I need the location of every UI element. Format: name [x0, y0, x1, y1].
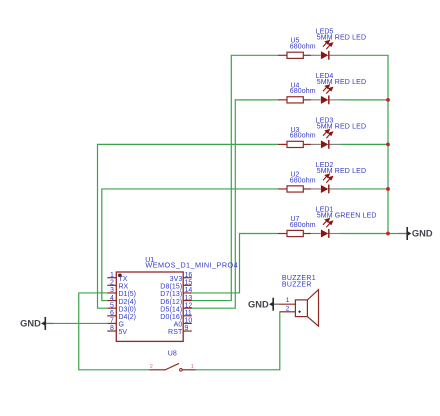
svg-text:3: 3: [110, 287, 114, 294]
resistor U4 680ohm: [278, 97, 311, 103]
U1 left pin 1 (TX) stub: [107, 277, 116, 279]
LED LED5 pin right (gray): [329, 54, 341, 56]
svg-text:5MM RED LED: 5MM RED LED: [317, 168, 367, 175]
svg-text:TX: TX: [119, 276, 128, 283]
svg-text:680ohm: 680ohm: [290, 44, 316, 51]
wire: LED4 left + drop to D5(14): [192, 100, 278, 308]
svg-text:WEMOS_D1_MINI_PRO4: WEMOS_D1_MINI_PRO4: [145, 261, 238, 270]
LED LED1 diode symbol: [321, 229, 329, 238]
LED LED2 emission arrows: [323, 174, 333, 183]
U1 right pin 10 (A0) stub: [183, 322, 192, 324]
wire: LED1 row right segment: [341, 233, 389, 235]
ground GND left gray lead: [46, 322, 53, 324]
U1 right pin 16 (3V3) stub: [183, 277, 192, 279]
U1 left pin 6 (D4(2)) stub: [107, 315, 116, 317]
svg-text:5V: 5V: [119, 329, 128, 336]
svg-text:5MM RED LED: 5MM RED LED: [317, 123, 367, 130]
LED LED1 pin left (gray): [311, 233, 321, 235]
svg-text:6: 6: [110, 310, 114, 317]
resistor U2 680ohm: [278, 186, 311, 192]
svg-text:5: 5: [110, 302, 114, 309]
LED LED3 emission arrows: [323, 130, 333, 139]
LED LED3 pin right (gray): [329, 143, 341, 145]
op-amp U1 WEMOS_D1_MINI_PRO4 body: [116, 272, 183, 341]
svg-text:2: 2: [286, 305, 290, 312]
U1 left pin 2 (RX) stub: [107, 284, 116, 286]
ground GND right wedge: [408, 231, 412, 235]
svg-text:12: 12: [185, 302, 193, 309]
ground GND buzzer wedge: [269, 302, 273, 306]
svg-text:D4(2): D4(2): [119, 314, 137, 321]
U1 left pin 7 (G) stub: [107, 322, 116, 324]
svg-text:A0: A0: [174, 322, 183, 329]
resistor U5 680ohm: [278, 52, 311, 58]
svg-text:D8(15): D8(15): [160, 284, 182, 291]
U1 left pin 5 (D3(0)) stub: [107, 307, 116, 309]
junction dot LED2 on bus: [386, 187, 390, 191]
LED LED3 pin left (gray): [311, 143, 321, 145]
svg-text:U8: U8: [168, 350, 177, 357]
ground GND right gray lead: [399, 233, 406, 235]
U1 left pin 8 (5V) stub: [107, 330, 116, 332]
svg-text:1: 1: [110, 272, 114, 279]
LED LED1 pin right (gray): [329, 233, 341, 235]
LED LED4 pin left (gray): [311, 99, 321, 101]
svg-text:GND: GND: [20, 319, 41, 329]
buzzer BUZZER1 body: [307, 290, 318, 327]
svg-text:10: 10: [185, 318, 193, 325]
svg-text:680ohm: 680ohm: [290, 88, 316, 95]
svg-text:2: 2: [110, 280, 114, 287]
svg-text:2: 2: [150, 364, 153, 370]
wire: LED5 row right segment: [341, 54, 389, 56]
svg-text:GND: GND: [248, 299, 269, 309]
svg-text:680ohm: 680ohm: [290, 133, 316, 140]
svg-text:11: 11: [185, 310, 192, 317]
svg-text:RX: RX: [119, 284, 129, 291]
U1 right pin 9 (RST) stub: [183, 330, 192, 332]
svg-text:15: 15: [185, 280, 193, 287]
svg-text:D0(16): D0(16): [160, 314, 182, 321]
U1 right pin 12 (D5(14)) stub: [183, 307, 192, 309]
ground GND left bar: [44, 317, 46, 330]
U1 right pin 14 (D7(13)) stub: [183, 292, 192, 294]
wire: D1(5) to switch bottom rail: [79, 293, 150, 370]
switch U8 blade: [165, 363, 179, 370]
ground GND buzzer bar: [272, 298, 274, 311]
svg-text:14: 14: [185, 287, 193, 294]
svg-text:D5(14): D5(14): [160, 306, 182, 313]
junction dot LED4 on bus: [386, 98, 390, 102]
LED LED1 emission arrows: [323, 219, 333, 228]
U1 right pin 13 (D6(12)) stub: [183, 300, 192, 302]
junction dot LED1/GND on bus: [386, 232, 390, 236]
LED LED2 diode symbol: [321, 185, 329, 194]
svg-text:1: 1: [191, 364, 194, 370]
wire: LED5 left + drop to D6(12): [192, 55, 278, 300]
LED LED2 pin right (gray): [329, 188, 341, 190]
LED LED2 pin left (gray): [311, 188, 321, 190]
wire: LED3 row right segment: [341, 143, 389, 145]
svg-text:D1(5): D1(5): [119, 291, 137, 298]
ground GND left wedge: [41, 321, 45, 325]
LED LED3 diode symbol: [321, 140, 329, 149]
LED LED4 diode symbol: [321, 95, 329, 104]
wire: G pin to left GND flag: [54, 322, 108, 324]
ground GND buzzer gray lead: [274, 303, 279, 305]
svg-text:RST: RST: [168, 329, 183, 336]
svg-text:5MM RED LED: 5MM RED LED: [317, 34, 367, 41]
U1 right pin 15 (D8(15)) stub: [183, 284, 192, 286]
U1 left pin 3 (D1(5)) stub: [107, 292, 116, 294]
U1 pin-1 marker dot: [118, 274, 122, 278]
svg-text:GND: GND: [412, 229, 433, 239]
svg-text:8: 8: [110, 325, 114, 332]
switch U8 pin 1 lead: [182, 369, 195, 371]
wire: LED3 left + drop to D3(0): [98, 144, 279, 308]
buzzer pin 1 stub: [279, 303, 296, 305]
svg-text:5MM RED LED: 5MM RED LED: [317, 79, 367, 86]
svg-text:G: G: [119, 322, 124, 329]
svg-text:D3(0): D3(0): [119, 306, 137, 313]
LED LED4 emission arrows: [323, 85, 333, 94]
wire: LED2 row right segment: [341, 188, 389, 190]
LED LED5 diode symbol: [321, 51, 329, 60]
svg-text:D7(13): D7(13): [160, 291, 182, 298]
resistor U7 680ohm: [278, 230, 311, 236]
svg-text:680ohm: 680ohm: [290, 177, 316, 184]
wire: LED1 left + drop to D7(13): [192, 234, 278, 293]
svg-text:3V3: 3V3: [170, 276, 183, 283]
wire: right GND bus vertical: [387, 55, 389, 233]
svg-text:9: 9: [185, 325, 189, 332]
LED LED4 pin right (gray): [329, 99, 341, 101]
ground GND right bar: [406, 227, 408, 240]
svg-text:D2(4): D2(4): [119, 299, 137, 306]
U1 left pin 4 (D2(4)) stub: [107, 300, 116, 302]
LED LED5 pin left (gray): [311, 54, 321, 56]
svg-text:1: 1: [286, 297, 290, 304]
resistor U3 680ohm: [278, 141, 311, 147]
svg-text:D6(12): D6(12): [160, 299, 182, 306]
LED LED5 emission arrows: [323, 41, 333, 50]
svg-text:BUZZER: BUZZER: [282, 282, 312, 289]
wire: bus to right GND flag: [388, 233, 400, 235]
svg-text:5MM GREEN LED: 5MM GREEN LED: [317, 213, 377, 220]
wire: LED4 row right segment: [341, 99, 389, 101]
svg-text:4: 4: [110, 295, 114, 302]
svg-text:7: 7: [110, 318, 114, 325]
svg-text:16: 16: [185, 272, 193, 279]
buzzer plus polarity mark: [298, 310, 301, 313]
U1 right pin 11 (D0(16)) stub: [183, 315, 192, 317]
junction dot LED3 on bus: [386, 143, 390, 147]
buzzer pin 2 stub: [280, 311, 296, 313]
switch U8 pin 2 lead: [150, 369, 166, 371]
wire: LED2 left + drop to D2(4): [102, 189, 278, 301]
wire: switch to buzzer pin2: [196, 312, 280, 370]
switch U8 contact circle: [180, 369, 183, 372]
svg-text:13: 13: [185, 295, 193, 302]
svg-text:680ohm: 680ohm: [290, 222, 316, 229]
